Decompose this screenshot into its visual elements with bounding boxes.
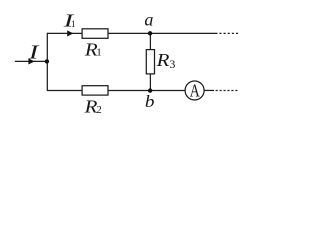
svg-text:R: R: [155, 50, 169, 70]
svg-text:3: 3: [169, 57, 175, 71]
svg-text:b: b: [145, 92, 155, 111]
svg-text:a: a: [144, 9, 153, 29]
svg-text:1: 1: [71, 20, 76, 30]
svg-text:2: 2: [96, 104, 102, 116]
svg-text:1: 1: [96, 46, 102, 58]
svg-text:I: I: [27, 42, 40, 64]
svg-text:A: A: [190, 80, 200, 100]
